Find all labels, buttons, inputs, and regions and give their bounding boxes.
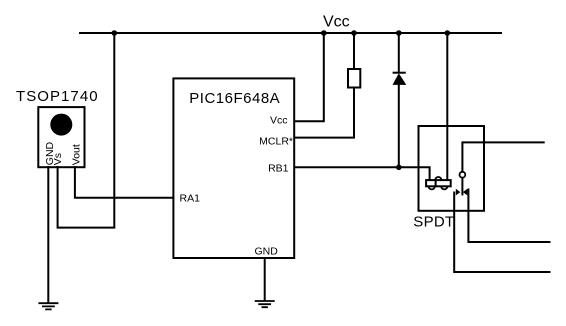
svg-text:PIC16F648A: PIC16F648A: [189, 90, 280, 107]
svg-text:RA1: RA1: [180, 193, 201, 205]
svg-text:Vcc: Vcc: [270, 114, 288, 126]
svg-text:SPDT: SPDT: [413, 214, 454, 231]
svg-text:GND: GND: [255, 246, 279, 258]
svg-text:Vs: Vs: [52, 153, 64, 165]
svg-text:Vcc: Vcc: [323, 14, 350, 31]
svg-text:Vout: Vout: [70, 144, 82, 165]
svg-text:TSOP1740: TSOP1740: [16, 88, 99, 105]
svg-text:MCLR*: MCLR*: [259, 135, 293, 147]
svg-text:RB1: RB1: [268, 163, 289, 175]
